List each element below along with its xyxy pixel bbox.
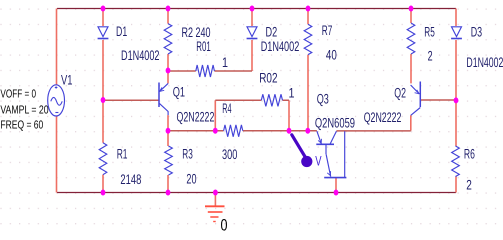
svg-text:VAMPL = 20: VAMPL = 20 — [0, 103, 48, 116]
svg-text:1: 1 — [289, 85, 295, 100]
svg-text:R4: R4 — [222, 101, 231, 116]
junction R3 bottom — [166, 190, 171, 196]
junction Q3 emitter bottom — [334, 190, 339, 196]
svg-text:R1: R1 — [117, 146, 128, 161]
wire D2 branch — [251, 9, 253, 72]
wire bottom rail — [57, 192, 456, 194]
svg-text:Q3: Q3 — [317, 91, 329, 106]
transistor Q1 — [159, 83, 168, 116]
svg-text:R6: R6 — [464, 146, 475, 161]
diode D3 — [451, 27, 462, 39]
svg-text:D1N4002: D1N4002 — [121, 48, 160, 63]
svg-text:Q2N2222: Q2N2222 — [177, 110, 215, 125]
junction R2 top — [166, 6, 171, 12]
wire D1-R1 branch — [102, 9, 104, 193]
wire R2-Q1-R3 branch — [167, 9, 169, 193]
junction R02 left leg node — [213, 128, 218, 134]
svg-text:Q2N2222: Q2N2222 — [364, 110, 402, 125]
svg-text:2: 2 — [466, 177, 472, 192]
ground — [205, 206, 225, 221]
diode D1 — [98, 27, 109, 39]
wire top rail — [57, 8, 456, 10]
svg-text:1: 1 — [222, 55, 228, 70]
wire left rail — [56, 9, 58, 193]
transistor Q2 — [411, 82, 421, 116]
voltage source V1 — [48, 85, 65, 116]
svg-text:VOFF = 0: VOFF = 0 — [0, 87, 36, 100]
svg-text:R01: R01 — [196, 39, 211, 54]
diode D2 — [247, 27, 258, 39]
junction ground node — [213, 190, 218, 196]
wire R5-Q2 branch — [410, 9, 412, 131]
svg-text:2: 2 — [428, 48, 433, 63]
junction R1 bottom — [101, 190, 106, 196]
svg-text:Q1: Q1 — [173, 84, 185, 99]
svg-text:R02: R02 — [259, 71, 277, 86]
resistor R02 — [261, 94, 282, 106]
resistor R3 — [165, 146, 173, 175]
junction R7-Q3 base node — [305, 128, 310, 134]
svg-text:D3: D3 — [471, 25, 483, 40]
wire Q2 base — [420, 99, 456, 101]
svg-text:2148: 2148 — [120, 172, 141, 187]
resistor R5 — [407, 23, 415, 54]
wire right rail — [455, 9, 457, 193]
wire Q3 emitter — [335, 178, 337, 193]
svg-text:R3: R3 — [182, 147, 193, 162]
transistor Q3 (Darlington) — [316, 131, 346, 177]
junction Q2 base node — [454, 97, 459, 103]
svg-text:V1: V1 — [61, 72, 73, 87]
svg-text:D1N4002: D1N4002 — [261, 39, 300, 54]
wire R02 left leg — [214, 100, 216, 130]
junction Q1 collector-R4 node — [166, 128, 171, 134]
wire R01 row — [168, 70, 252, 72]
svg-text:D1: D1 — [116, 24, 127, 39]
junction R2-R01-Q1 node — [166, 68, 171, 74]
wire R02 right leg — [288, 100, 290, 130]
junction Q1 base node — [101, 97, 106, 103]
resistor R7 — [304, 24, 312, 54]
wire R4 row — [168, 130, 411, 132]
svg-text:R5: R5 — [424, 24, 435, 39]
svg-text:Q2: Q2 — [394, 86, 406, 101]
resistor R01 — [196, 65, 215, 77]
resistor R4 — [224, 125, 243, 137]
junction R7 top — [306, 6, 311, 12]
svg-text:V: V — [315, 154, 322, 169]
wire R02 row — [215, 99, 289, 101]
svg-text:Q2N6059: Q2N6059 — [315, 115, 355, 130]
wire Q1 base — [103, 99, 159, 101]
svg-text:300: 300 — [222, 147, 238, 162]
wire R7 branch — [307, 9, 309, 131]
svg-text:FREQ = 60: FREQ = 60 — [0, 119, 43, 132]
junction D1 top — [101, 6, 106, 12]
wire ground stub — [214, 193, 216, 207]
svg-text:20: 20 — [186, 172, 196, 187]
svg-text:D1N4002: D1N4002 — [466, 55, 503, 70]
resistor R1 — [99, 143, 107, 175]
junction D2 top — [250, 6, 255, 12]
svg-text:40: 40 — [326, 48, 337, 63]
voltage probe V — [292, 135, 313, 167]
junction R02 right leg node — [287, 128, 292, 134]
resistor R6 — [452, 146, 460, 177]
resistor R2 — [164, 24, 172, 54]
svg-text:R7: R7 — [322, 23, 333, 38]
svg-text:R2 240: R2 240 — [182, 25, 211, 40]
svg-text:D2: D2 — [266, 24, 278, 39]
junction R5 top — [409, 6, 414, 12]
svg-text:0: 0 — [221, 217, 228, 232]
